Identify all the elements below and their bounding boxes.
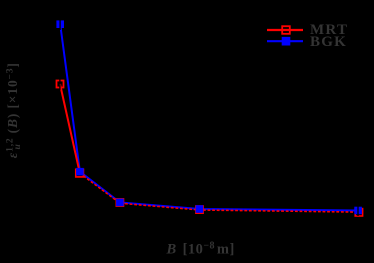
- MRT red curve segment 1 (solid): [60, 84, 80, 173]
- svg-text:BGK: BGK: [310, 34, 347, 50]
- BGK marker point1 (filled blue square): [56, 20, 64, 28]
- MRT marker point1 (open red square): [57, 81, 64, 88]
- MRT marker point5: [355, 209, 362, 216]
- legend BGK line: [267, 40, 303, 42]
- BGK marker point4: [196, 205, 204, 213]
- MRT marker point3: [116, 199, 123, 206]
- BGK marker point2: [76, 168, 84, 176]
- legend MRT line: [267, 29, 303, 31]
- legend BGK marker: [282, 37, 291, 46]
- black error bar slit point1 blue: [59, 18, 61, 30]
- black error bar slit point5 blue: [357, 205, 359, 217]
- MRT marker point4: [196, 206, 203, 213]
- BGK marker point5: [354, 207, 362, 215]
- MRT marker point2: [76, 169, 84, 177]
- BGK marker point3: [116, 199, 124, 207]
- legend MRT marker: [282, 26, 290, 34]
- black error bar slit point1 red: [59, 78, 61, 90]
- BGK blue curve: [60, 24, 358, 210]
- MRT red curve dashed over blue: [80, 173, 359, 212]
- svg-text:B[10−8m]: B[10−8m]: [166, 240, 235, 257]
